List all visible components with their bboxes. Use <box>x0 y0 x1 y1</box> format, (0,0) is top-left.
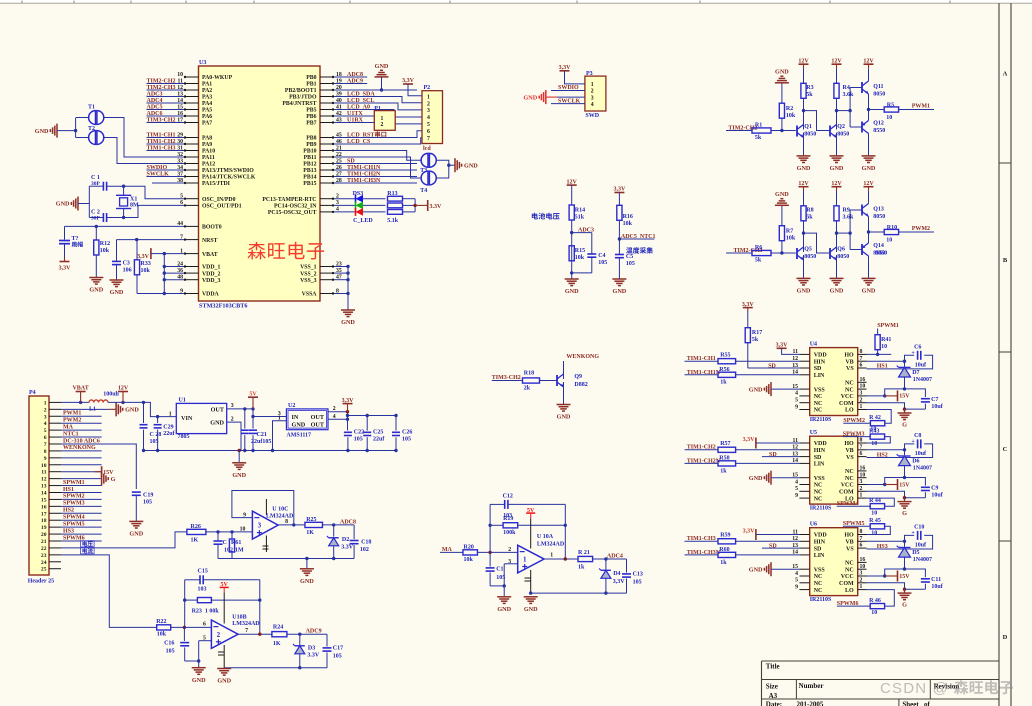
svg-text:G: G <box>111 476 116 483</box>
driver ic U6 IR2110S <box>810 522 858 604</box>
U3 pin 5 OSC_IN/PD0 <box>180 194 236 203</box>
svg-text:C_LED: C_LED <box>353 218 373 224</box>
svg-text:C9: C9 <box>931 486 938 492</box>
transistor Q11 8050 <box>862 81 885 98</box>
red watermark text inside mcu <box>248 242 325 260</box>
jumper T1 <box>88 105 104 125</box>
svg-text:C16: C16 <box>164 641 174 647</box>
regulator U1 7805 <box>169 398 227 441</box>
wire P4.4 <box>61 422 102 424</box>
U6 pin 13 SD <box>792 543 809 549</box>
svg-text:SWDIO: SWDIO <box>147 165 168 171</box>
resistor R57 1k <box>718 441 799 461</box>
resistor R4 3.6k <box>834 68 854 111</box>
wire Q5 collector <box>802 231 830 253</box>
wire P4.19 <box>61 526 102 528</box>
power 12V at Q13 collector <box>863 181 874 204</box>
net label SPWM6 <box>63 535 85 541</box>
svg-text:GND: GND <box>565 288 579 295</box>
svg-text:10k: 10k <box>786 236 796 242</box>
connector P4 Header 25 <box>28 390 61 585</box>
wire net ADC3 to U3.PA3 <box>147 96 185 98</box>
zone letter B <box>1003 257 1008 264</box>
net label LCD_SDA <box>347 91 375 97</box>
resistor R61 1M <box>229 532 244 559</box>
U3 pin 18 PB0 <box>306 72 342 81</box>
resistor R21 1k <box>578 550 627 571</box>
svg-text:ADC9: ADC9 <box>306 629 322 635</box>
wire Q1 emitter to gnd <box>803 133 805 156</box>
net label LCD_SCL <box>347 98 374 104</box>
svg-text:R22: R22 <box>156 619 166 625</box>
U4 pin 16 NC <box>858 377 867 383</box>
svg-text:5k: 5k <box>806 92 813 98</box>
svg-text:3,3V: 3,3V <box>342 398 355 404</box>
power 12V above R8 <box>798 181 809 191</box>
svg-text:lcd: lcd <box>423 146 431 152</box>
svg-text:3: 3 <box>860 479 863 485</box>
net label MA <box>440 547 463 553</box>
svg-text:R59: R59 <box>720 533 730 539</box>
net label SPWM5 <box>63 521 85 527</box>
ground below rail <box>232 451 246 480</box>
svg-text:PC13-TAMPER-RTC: PC13-TAMPER-RTC <box>262 197 316 203</box>
svg-text:23: 23 <box>41 553 47 559</box>
wire net ADC8 from U3.PB0 <box>334 76 367 78</box>
svg-text:10uf: 10uf <box>915 543 927 549</box>
svg-text:PB8: PB8 <box>306 136 316 142</box>
wire P4.17 <box>61 512 102 514</box>
svg-text:LIN: LIN <box>814 462 825 468</box>
svg-text:SWDIO: SWDIO <box>558 85 579 91</box>
U3 pin 41 PB5 <box>306 104 342 113</box>
svg-text:HS3: HS3 <box>63 528 74 534</box>
svg-text:ADC4: ADC4 <box>607 554 623 560</box>
svg-text:VS: VS <box>846 366 854 372</box>
wire P4.15 <box>61 498 102 500</box>
U3 pin 9 VDDA <box>180 288 219 297</box>
capacitor C5 105 <box>615 239 635 279</box>
svg-text:30P: 30P <box>91 216 101 222</box>
capacitor C10 10uf bootstrap <box>911 525 927 549</box>
wire Q1 collector <box>802 109 830 131</box>
svg-text:ADC9: ADC9 <box>347 78 363 84</box>
U4 pin 3 VCC <box>858 391 867 397</box>
svg-text:8050: 8050 <box>875 251 887 257</box>
svg-text:OSC_IN/PD0: OSC_IN/PD0 <box>202 197 236 203</box>
ground at U4 VSS <box>749 382 800 396</box>
svg-text:PB14: PB14 <box>303 175 316 181</box>
net label ADC6 <box>147 111 163 117</box>
net label TIM2-CH2 <box>726 125 757 131</box>
svg-text:GND: GND <box>830 165 844 172</box>
resistor R10 10 <box>884 225 934 244</box>
svg-text:8: 8 <box>860 349 863 355</box>
svg-text:IR2110S: IR2110S <box>810 597 832 603</box>
svg-text:10: 10 <box>860 472 866 478</box>
power 3.3V below jumper <box>59 257 72 272</box>
power 3.3V at U4 VDD <box>776 343 800 355</box>
wire P4.1 to VBAT and L1 <box>61 401 89 404</box>
capacitor C1 30P <box>89 175 123 191</box>
resistor R16 10k <box>617 205 633 239</box>
power 12V input <box>118 386 129 403</box>
wire U4 VCC node 15V <box>867 387 907 397</box>
svg-text:2: 2 <box>591 89 594 95</box>
svg-text:PA11: PA11 <box>202 155 215 161</box>
U3 pin 6 OSC_OUT/PD1 <box>180 200 242 209</box>
U3 pin 48 VDD_3 <box>177 275 220 284</box>
svg-text:2k: 2k <box>524 385 531 391</box>
svg-text:SPWM2: SPWM2 <box>63 494 85 500</box>
U6 pin 3 VCC <box>858 571 867 577</box>
svg-text:U4: U4 <box>810 341 817 347</box>
resistor R41 10 to SPWM1 <box>875 329 891 357</box>
capacitor C2 30P <box>89 210 123 223</box>
ground above R2 <box>775 69 789 83</box>
ground above R7 <box>775 191 789 205</box>
wire LCD_A0 to P2.4 <box>334 110 422 118</box>
svg-text:GND: GND <box>497 606 511 613</box>
svg-text:1K: 1K <box>191 537 199 543</box>
svg-text:GND: GND <box>775 69 789 76</box>
ground below Q14 <box>862 278 876 294</box>
U4 pin 5 NC <box>795 398 810 404</box>
svg-text:Header 25: Header 25 <box>28 579 54 585</box>
wire Q12 collector to gnd <box>868 134 870 156</box>
power 15V at U4 <box>898 390 911 401</box>
svg-text:9: 9 <box>44 456 47 462</box>
svg-text:GND: GND <box>613 288 627 295</box>
power 12V battery divider <box>567 179 578 198</box>
wire LCD_CS to P2.7 <box>334 138 422 144</box>
U4 pin 11 VDD <box>793 349 810 355</box>
U4 pin 7 VB <box>858 356 867 362</box>
svg-text:HIN: HIN <box>814 359 826 365</box>
svg-text:G: G <box>902 602 907 609</box>
U5 pin 15 VSS <box>792 473 809 479</box>
net label SPWM3 <box>63 501 85 507</box>
svg-text:9: 9 <box>795 584 798 590</box>
svg-text:1k: 1k <box>720 468 727 474</box>
U3 pin 17 PA7 <box>177 117 212 126</box>
svg-text:HS2: HS2 <box>877 452 888 458</box>
net label ADC4 <box>147 98 163 104</box>
svg-text:9: 9 <box>795 404 798 410</box>
wire P4.21 <box>61 540 102 542</box>
wire 5V to U2 IN <box>253 411 286 417</box>
transistor Q14 8550 <box>862 243 887 257</box>
svg-text:R1: R1 <box>755 122 762 128</box>
svg-text:T?: T? <box>72 236 79 242</box>
svg-text:R7: R7 <box>786 229 793 235</box>
U3 pin 25 PB12 <box>303 158 342 167</box>
svg-text:SPWM1: SPWM1 <box>63 480 85 486</box>
wire Q2 emitter to gnd <box>836 133 838 156</box>
svg-text:2: 2 <box>860 486 863 492</box>
svg-text:1: 1 <box>169 411 172 417</box>
ground above BOOT1 <box>375 63 389 92</box>
svg-text:NTC1: NTC1 <box>63 431 79 437</box>
svg-text:12V: 12V <box>831 181 842 187</box>
svg-text:ADC3: ADC3 <box>147 91 163 97</box>
svg-text:C3: C3 <box>123 261 130 267</box>
resistor R59 1k <box>718 533 799 553</box>
net label DC-310 ADC6 <box>63 438 100 444</box>
wire R13 common to 3.3V <box>413 199 427 212</box>
svg-text:VB: VB <box>845 540 853 546</box>
U3 pin 29 PA8 <box>177 132 212 141</box>
svg-text:R 46: R 46 <box>869 598 881 604</box>
net label PWM1 <box>912 104 930 110</box>
svg-text:8050: 8050 <box>873 214 885 220</box>
wire U10B output <box>238 633 272 636</box>
resistor R18 2k <box>523 370 558 391</box>
svg-text:HS3: HS3 <box>877 544 888 550</box>
inductor L1 100uh <box>89 392 120 413</box>
svg-text:10: 10 <box>41 463 47 469</box>
wire net SWDIO to U3.PA13/JTMS/SWDIO <box>147 169 185 171</box>
U3 pin 33 PA12 <box>177 158 215 167</box>
net label HS1 <box>877 364 888 370</box>
capacitor C4 105 <box>570 233 607 275</box>
U6 pin 4 NC <box>795 571 810 577</box>
svg-text:5k: 5k <box>755 135 762 141</box>
mcu U3 body STM32F103CBT6 <box>199 60 321 310</box>
svg-text:8: 8 <box>860 438 863 444</box>
wire P4.5 <box>61 429 102 431</box>
ground at U5 VSS <box>749 471 800 485</box>
capacitor C26 105 <box>392 416 412 451</box>
svg-text:U2: U2 <box>288 403 295 409</box>
U3 pin 2 PC13-TAMPER-RTC <box>262 194 339 203</box>
wire Q5 emitter to gnd <box>803 255 805 278</box>
U3 pin 16 PA6 <box>177 111 212 120</box>
ground right of T3/T4 <box>455 158 478 172</box>
wire to push-pull bases <box>848 88 862 128</box>
svg-text:A: A <box>1003 71 1008 78</box>
net label SPWM1 <box>63 480 85 486</box>
ground below divider <box>565 273 579 295</box>
svg-text:103: 103 <box>198 587 207 593</box>
resistor R8 5k <box>801 191 814 234</box>
U4 pin 8 HO <box>858 349 867 355</box>
svg-text:2: 2 <box>231 416 234 422</box>
wire X1 to OSC_OUT <box>122 205 184 219</box>
net label U1TX <box>347 111 363 117</box>
svg-text:Q5: Q5 <box>804 246 812 252</box>
svg-text:Q6: Q6 <box>837 246 845 252</box>
net label ADC5 <box>147 104 163 110</box>
wire Q9 emitter <box>563 382 565 405</box>
svg-text:SPWM4: SPWM4 <box>63 515 85 521</box>
power 3.3V above R17 <box>742 302 755 311</box>
svg-text:DC-310 ADC6: DC-310 ADC6 <box>63 438 100 444</box>
capacitor C12 103 feedback <box>490 493 565 519</box>
net label ADC8 <box>347 72 363 78</box>
svg-text:4: 4 <box>44 421 47 427</box>
svg-text:Q11: Q11 <box>873 84 883 90</box>
svg-text:PA9: PA9 <box>202 142 212 148</box>
svg-text:R 42: R 42 <box>869 415 881 421</box>
wire Q6 emitter to gnd <box>836 255 838 278</box>
net label SPWM4 <box>63 515 85 521</box>
svg-text:A3: A3 <box>769 692 778 700</box>
svg-text:SPWM5: SPWM5 <box>63 521 85 527</box>
wire 3.3V cap rail <box>346 414 398 417</box>
svg-text:1: 1 <box>860 404 863 410</box>
svg-text:3,3V: 3,3V <box>743 529 756 535</box>
svg-text:C 28: C 28 <box>150 432 162 438</box>
led DS3 red <box>334 208 386 224</box>
svg-text:2: 2 <box>44 407 47 413</box>
svg-text:5: 5 <box>795 398 798 404</box>
wire T2 to PA12 <box>103 138 184 164</box>
net label TIM1-CH1N <box>685 370 721 376</box>
svg-text:P3: P3 <box>586 71 593 77</box>
svg-text:GND: GND <box>523 94 537 101</box>
svg-text:R33: R33 <box>141 261 151 267</box>
capacitor C16 105 <box>164 627 200 662</box>
svg-text:T4: T4 <box>420 188 427 194</box>
net label SD at U4 <box>748 363 800 369</box>
svg-text:106: 106 <box>123 268 132 274</box>
svg-text:16: 16 <box>41 504 47 510</box>
svg-text:SD: SD <box>814 546 822 552</box>
svg-text:GND: GND <box>35 128 49 135</box>
svg-text:10k: 10k <box>575 255 585 261</box>
U3 pin 12 PA2 <box>177 85 212 94</box>
wire P4.8 <box>61 450 102 452</box>
ground below C19 <box>129 521 143 537</box>
svg-text:SPWM1: SPWM1 <box>877 323 899 329</box>
net label U1RX <box>347 117 364 123</box>
svg-text:VDDA: VDDA <box>202 292 220 298</box>
svg-text:6: 6 <box>44 435 47 441</box>
svg-text:10k: 10k <box>786 113 796 119</box>
led DS3 blue <box>334 191 386 203</box>
svg-text:C26: C26 <box>402 430 412 436</box>
op-amp U10C LM324AD <box>252 499 294 552</box>
top frame border line with ruler ticks <box>0 1 1032 4</box>
wire net SWCLK to U3.PA14/JTCK/SWCLK <box>147 176 185 178</box>
svg-text:R5: R5 <box>887 102 894 108</box>
svg-text:10: 10 <box>886 115 892 121</box>
svg-text:SWD: SWD <box>585 113 599 119</box>
svg-text:HS1: HS1 <box>877 364 888 370</box>
net label HS3 <box>877 544 888 550</box>
net label TIM2-CH3 <box>147 85 176 91</box>
U6 pin 1 LO <box>858 584 867 590</box>
svg-text:7: 7 <box>860 356 863 362</box>
svg-text:25: 25 <box>41 567 47 573</box>
net label PWM2 <box>912 226 930 232</box>
svg-text:1M: 1M <box>235 548 244 554</box>
U5 pin 8 HO <box>858 438 867 444</box>
net label SWDIO <box>147 165 168 171</box>
svg-text:TIM3-CH2: TIM3-CH2 <box>147 117 176 123</box>
ground G at U6 <box>898 589 912 608</box>
svg-text:1N4007: 1N4007 <box>913 557 932 563</box>
svg-text:C12: C12 <box>503 493 513 499</box>
U3 pin 22 PB11 <box>304 152 342 161</box>
ground below Q5 <box>797 278 811 294</box>
svg-text:R15: R15 <box>575 248 585 254</box>
svg-text:STM32F103CBT6: STM32F103CBT6 <box>199 303 247 310</box>
power 15V at P4.11 <box>95 466 115 477</box>
title block <box>762 661 1000 706</box>
wire P4.16 <box>61 505 102 507</box>
svg-text:6: 6 <box>860 451 863 457</box>
ground at T1/T2 <box>35 124 76 138</box>
ground below NTC <box>612 279 626 295</box>
svg-text:PB13: PB13 <box>303 168 316 174</box>
svg-text:10uf: 10uf <box>931 584 943 590</box>
net label SWCLK <box>147 171 170 177</box>
net label SD at U5 <box>762 452 800 458</box>
svg-text:R26: R26 <box>191 524 201 530</box>
U3 pin 19 PB1 <box>306 78 342 87</box>
svg-text:2: 2 <box>381 122 384 128</box>
wire L1 to 12V node <box>108 401 176 419</box>
svg-text:3,3V: 3,3V <box>743 437 756 443</box>
U6 pin 12 HIN <box>792 536 809 542</box>
wire P4.2 to GND <box>61 408 109 410</box>
svg-text:10k: 10k <box>141 268 151 274</box>
svg-text:CSDN @: CSDN @ <box>880 680 949 697</box>
U3 pin 30 PA9 <box>177 139 212 148</box>
power 15V at U6 <box>898 571 911 582</box>
svg-text:+: + <box>911 530 915 536</box>
ground at U6 VSS <box>749 562 800 576</box>
svg-text:ADC6: ADC6 <box>147 111 163 117</box>
wire push-pull output node <box>867 94 884 121</box>
svg-text:VBAT: VBAT <box>72 386 88 392</box>
svg-text:WENKONG: WENKONG <box>566 354 599 360</box>
svg-text:51k: 51k <box>575 215 585 221</box>
wire P4.20 <box>61 533 102 535</box>
power 3.3V at U2 out <box>342 398 355 412</box>
svg-text:Title: Title <box>766 663 780 671</box>
net label SPWM2 <box>63 494 85 500</box>
wire P4.23 to R22 <box>61 555 157 628</box>
wire U10C output <box>278 519 305 527</box>
resistor R22 10k <box>156 619 211 638</box>
U3 pin 8 VSSA <box>302 288 339 297</box>
capacitor C22 105 <box>344 430 364 451</box>
svg-text:R24: R24 <box>273 624 283 630</box>
U3 pin 21 PB10 <box>303 145 342 154</box>
svg-text:5: 5 <box>795 578 798 584</box>
svg-text:U 10A: U 10A <box>537 534 554 540</box>
wire T3/T4 common to ground <box>436 160 455 178</box>
svg-text:24: 24 <box>41 560 47 566</box>
svg-text:GND: GND <box>292 422 306 429</box>
U3 pin 10 PA0-WKUP <box>177 72 232 81</box>
svg-text:LO: LO <box>845 588 854 594</box>
U3 pin 42 PB6 <box>306 111 342 120</box>
svg-text:10: 10 <box>177 72 183 78</box>
wire U4 COM to G <box>867 403 926 411</box>
resistor R5 10 <box>884 102 934 121</box>
svg-text:NRST: NRST <box>202 238 218 244</box>
svg-text:R23 1 00k: R23 1 00k <box>192 608 220 614</box>
svg-text:105: 105 <box>333 653 342 659</box>
power 12V at Q11 collector <box>863 58 874 81</box>
svg-text:9: 9 <box>243 512 246 518</box>
power 3.3V at U6 VDD <box>743 529 800 540</box>
svg-text:22uf105: 22uf105 <box>251 439 271 445</box>
